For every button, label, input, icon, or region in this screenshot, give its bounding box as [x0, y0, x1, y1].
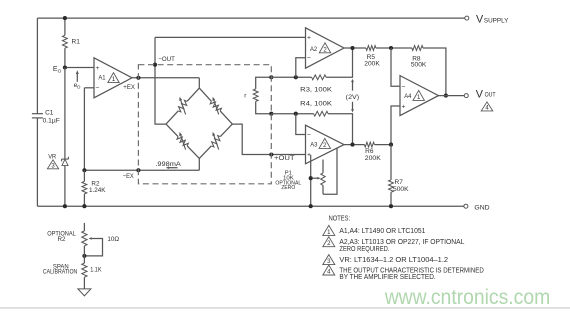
svg-text:1.1K: 1.1K: [90, 266, 102, 273]
svg-text:R6: R6: [365, 148, 374, 155]
svg-text:A2: A2: [310, 46, 318, 53]
svg-text:0.1µF: 0.1µF: [43, 118, 60, 125]
svg-text:BY THE AMPLIFIER SELECTED.: BY THE AMPLIFIER SELECTED.: [339, 272, 435, 281]
svg-text:R4, 100K: R4, 100K: [300, 101, 333, 108]
svg-text:OUT: OUT: [485, 92, 496, 99]
svg-text:R1: R1: [72, 38, 81, 45]
svg-text:+: +: [402, 103, 406, 110]
svg-text:−: −: [307, 132, 311, 139]
svg-text:500K: 500K: [393, 186, 409, 193]
svg-text:200K: 200K: [365, 155, 382, 162]
svg-text:V: V: [476, 14, 484, 26]
svg-text:ZERO REQUIRED.: ZERO REQUIRED.: [339, 244, 389, 253]
svg-text:R3, 100K: R3, 100K: [300, 87, 333, 94]
svg-text:200K: 200K: [364, 60, 380, 67]
svg-text:A1: A1: [98, 74, 106, 81]
svg-text:+: +: [307, 35, 311, 42]
svg-text:−: −: [96, 85, 100, 92]
svg-text:R2: R2: [58, 236, 66, 243]
svg-text:A1,A4: LT1490 OR LTC1051: A1,A4: LT1490 OR LTC1051: [339, 226, 425, 235]
svg-text:www.cntronics.com: www.cntronics.com: [384, 286, 550, 309]
svg-text:+EX: +EX: [123, 84, 135, 91]
svg-text:VR: LT1634–1.2 OR LT1004–1.2: VR: LT1634–1.2 OR LT1004–1.2: [339, 255, 448, 264]
svg-text:r: r: [244, 93, 247, 100]
svg-text:−EX: −EX: [123, 173, 135, 180]
svg-text:GND: GND: [474, 204, 490, 211]
svg-text:10Ω: 10Ω: [107, 236, 119, 243]
svg-text:A4: A4: [404, 93, 412, 100]
svg-text:O: O: [77, 85, 81, 90]
svg-text:A3: A3: [310, 141, 318, 148]
svg-text:R7: R7: [395, 179, 404, 186]
svg-text:(2V): (2V): [346, 94, 360, 101]
svg-text:1.24K: 1.24K: [89, 187, 106, 194]
svg-text:500K: 500K: [411, 62, 427, 69]
svg-text:VR: VR: [48, 154, 56, 161]
svg-text:V: V: [476, 88, 484, 100]
svg-text:+: +: [96, 65, 100, 72]
svg-text:−: −: [402, 83, 406, 90]
svg-text:SUPPLY: SUPPLY: [484, 17, 509, 24]
svg-text:NOTES:: NOTES:: [329, 214, 351, 223]
svg-text:O: O: [58, 69, 62, 75]
svg-text:ZERO: ZERO: [281, 185, 295, 191]
svg-text:.998mA: .998mA: [155, 161, 181, 168]
svg-text:−: −: [307, 55, 311, 62]
svg-text:−OUT: −OUT: [158, 56, 175, 63]
svg-text:C1: C1: [45, 110, 54, 117]
svg-text:CALIBRATION: CALIBRATION: [43, 269, 77, 276]
svg-text:+OUT: +OUT: [274, 155, 295, 162]
